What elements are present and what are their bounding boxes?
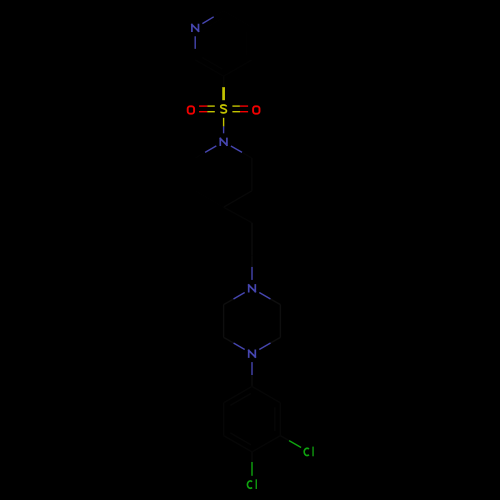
- S=O right: [232, 111, 240, 113]
- piperidine bond C4-C5: [195, 191, 223, 207]
- piperazine bond N4-C5: [234, 343, 245, 350]
- piperazine N4 label: [249, 350, 256, 357]
- pyridine N label: [192, 25, 199, 32]
- chain bond to piperazine N1: [251, 256, 253, 267]
- piperidine bond C3-C4: [224, 191, 252, 207]
- bond C3-Cl: [280, 436, 289, 441]
- ethylene chain bond 1: [224, 207, 252, 223]
- piperidine bond N-C2: [231, 146, 242, 152]
- pyridine bond C2=C3: [195, 60, 223, 76]
- benzene bond C6=C1: [224, 386, 252, 402]
- benzene bond C4=C5: [224, 436, 252, 452]
- ethylene chain bond 2: [251, 223, 253, 256]
- pyridine bond C6=N1: [214, 11, 224, 17]
- bond S - pyridine C3: [222, 87, 225, 100]
- sulfonamide bond S-N: [223, 118, 225, 127]
- benzene bond C2=C3: [279, 403, 281, 436]
- piperazine bond C6-N1: [224, 299, 234, 305]
- chlorine Cl label right: [304, 447, 313, 457]
- pyridine bond C4=C5: [251, 27, 253, 60]
- pyridine bond C5-C6: [224, 11, 252, 27]
- piperidine bond C2-C3: [251, 158, 253, 191]
- piperazine bond C3-N4: [271, 337, 281, 343]
- S=O left: [207, 105, 215, 107]
- benzene bond C1-C2: [252, 386, 280, 402]
- piperidine N label: [220, 139, 227, 146]
- pyridine bond N1-C2: [194, 36, 196, 49]
- chlorine Cl label bottom: [247, 479, 256, 489]
- oxygen O label right: [253, 106, 259, 113]
- sulfur S label: [221, 105, 227, 113]
- bond piperazine N4 - phenyl C1: [251, 362, 253, 375]
- piperidine bond C5-C6: [194, 158, 196, 191]
- benzene bond C3-C4: [252, 436, 280, 452]
- piperazine bond N1-C2: [259, 293, 270, 300]
- benzene bond C5-C6: [223, 403, 225, 436]
- pyridine bond C3-C4: [224, 60, 252, 76]
- oxygen O label left: [188, 106, 194, 113]
- piperazine N1 label: [249, 285, 256, 292]
- piperidine bond C6-N: [195, 152, 205, 158]
- piperazine bond C2-C3: [279, 305, 281, 338]
- piperazine bond C5-C6: [223, 305, 225, 338]
- bond C4-Cl: [251, 452, 253, 462]
